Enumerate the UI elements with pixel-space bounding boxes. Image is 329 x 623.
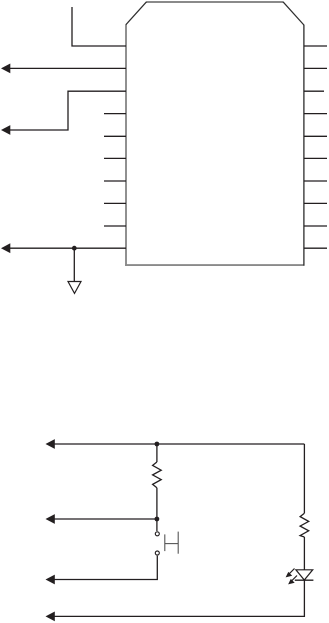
junction dot on pin 10 wire xyxy=(72,246,77,251)
switch S1 contact circle bottom xyxy=(155,551,159,555)
right pin 8 xyxy=(304,202,327,204)
ground symbol xyxy=(68,282,81,294)
IC U1 body xyxy=(125,2,304,266)
right pin 7 xyxy=(304,180,327,182)
bus wire 4 left arrow xyxy=(46,612,55,622)
wire dot to ground xyxy=(73,248,75,281)
wire resistor R2 to LED D1 xyxy=(303,537,305,570)
lower bus wire 2 with left arrow xyxy=(54,518,157,520)
switch S1 pushbutton actuator xyxy=(164,534,166,551)
right pin 10 xyxy=(304,247,327,249)
junction dot node B xyxy=(155,517,160,522)
right pin 5 xyxy=(304,135,327,137)
wire resistor R1 to node B xyxy=(156,488,158,519)
resistor R1 xyxy=(153,462,162,488)
right pin 3 xyxy=(304,90,324,92)
wire from top into pin 1 xyxy=(72,7,126,46)
pin 6 stub xyxy=(104,157,126,159)
pin 3 wire jog down with left arrow xyxy=(10,91,127,130)
wire node B to switch S1 xyxy=(156,519,158,531)
LED D1 emission arrow 1 xyxy=(288,569,295,576)
wire bus 1 to resistor R2 xyxy=(303,444,305,513)
wire LED D1 to bus wire 4 xyxy=(54,580,304,616)
pin 8 stub xyxy=(104,202,126,204)
pin 7 stub xyxy=(104,180,126,182)
right pin 1 xyxy=(304,45,327,47)
right pin 6 xyxy=(304,157,327,159)
resistor R2 xyxy=(300,513,309,537)
pin 4 stub xyxy=(104,113,126,115)
pin 5 stub xyxy=(104,135,126,137)
pin 9 stub xyxy=(104,225,126,227)
LED D1 triangle xyxy=(296,570,313,580)
bus wire 3 left arrow xyxy=(46,575,55,585)
right pin 9 xyxy=(304,225,327,227)
LED D1 cathode bar xyxy=(295,579,314,581)
right pin 4 xyxy=(304,113,327,115)
pin 2 wire with left arrow xyxy=(10,67,127,69)
lower bus wire 1 with left arrow xyxy=(54,443,304,445)
wire switch S1 to bus wire 3 xyxy=(54,556,157,580)
switch S1 contact circle top xyxy=(155,532,159,536)
right pin 2 xyxy=(304,67,327,69)
LED D1 emission arrow 2 xyxy=(291,576,298,583)
junction dot node A xyxy=(155,442,160,447)
pin 10 wire with left arrow xyxy=(10,247,127,249)
wire node A to resistor R1 xyxy=(156,444,158,462)
